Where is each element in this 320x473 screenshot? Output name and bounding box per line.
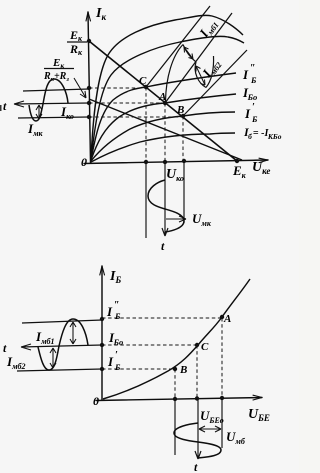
perp line L3 through B: [183, 50, 247, 116]
AC load line: [89, 41, 237, 161]
svg-text:B: B: [179, 364, 187, 376]
left: t axis: [14, 101, 89, 107]
curve c2: [91, 36, 244, 159]
svg-text:″: ″: [250, 63, 256, 74]
Ubeo arrow: [199, 426, 221, 432]
scan edge artifacts: [0, 105, 2, 111]
svg-text:C: C: [139, 75, 147, 87]
t axis of ib waveform (left): [21, 344, 102, 350]
Umk arrow: [166, 216, 186, 222]
curve c5 I'b through B: [91, 112, 235, 161]
input characteristic curve: [103, 279, 250, 399]
arrow Imb2 (between L2 and L3): [196, 66, 205, 85]
sine along load line hump1: [166, 45, 184, 102]
DC load line: [89, 99, 242, 160]
svg-text:″: ″: [114, 300, 120, 311]
dashed projections C A B: [89, 87, 183, 161]
fraction Ek/Rk: [67, 28, 87, 57]
arrow Imb1 (between L1 and L2): [184, 47, 193, 59]
sine umk(t) vertical: [148, 180, 184, 232]
left: line at C level: [23, 89, 89, 91]
Imb1 arrow: [70, 322, 76, 344]
svg-text:I: I: [106, 304, 113, 319]
wire: level line I''b (left): [22, 320, 102, 323]
curve c6 Ikbo: [91, 133, 235, 162]
svg-text:Б: Б: [251, 114, 258, 124]
wire: projection line from B below axis: [183, 161, 185, 223]
axis Ib vertical: [101, 266, 103, 400]
svg-text:Б: Б: [250, 75, 257, 85]
svg-text:′: ′: [115, 350, 118, 361]
svg-text:I: I: [242, 67, 249, 82]
perp line L2 through A: [165, 13, 232, 103]
wire: projection line from C below axis: [145, 162, 147, 238]
wire: projection line from B below axis (bottom): [174, 399, 176, 455]
label curve I'b: [244, 102, 258, 124]
sine umb(t): [174, 423, 221, 458]
svg-text:C: C: [201, 341, 209, 353]
left sine ib(t): [38, 319, 88, 370]
axis Ube horizontal: [96, 398, 262, 401]
left sine ik(t): [29, 79, 68, 121]
label level I'b: [107, 350, 121, 372]
curve c4 Ibo through A: [91, 94, 236, 160]
Imb2 arrow: [50, 348, 56, 368]
t axis of ube waveform (down): [195, 399, 201, 459]
svg-text:Б: Б: [114, 311, 121, 321]
svg-text:B: B: [176, 104, 184, 116]
fraction Ek/(Rk+Rz): [43, 57, 86, 98]
perp line L1 through C: [146, 6, 210, 87]
svg-text:A: A: [223, 313, 231, 325]
svg-text:A: A: [158, 91, 166, 103]
svg-text:Rк+Rз: Rк+Rз: [43, 71, 69, 83]
wire: projection line from A below axis (bottom): [221, 398, 223, 448]
points B C A bottom: [173, 367, 177, 371]
svg-text:I: I: [244, 106, 251, 121]
label Imb1 rotated: [196, 16, 221, 42]
svg-text:I: I: [107, 354, 114, 369]
svg-text:Б: Б: [114, 362, 121, 372]
Imk arrow: [36, 105, 42, 119]
t axis of uke waveform (down): [162, 162, 168, 236]
dashed projections bottom: [102, 318, 222, 398]
curve c3 I''b through C: [91, 73, 236, 160]
curve c1 top unlabeled: [91, 15, 243, 158]
sine along load line hump2: [195, 62, 206, 88]
label Imb2 rotated: [199, 56, 224, 82]
svg-text:0: 0: [81, 155, 87, 169]
axis Uke horizontal: [84, 160, 268, 164]
label level I''b: [106, 300, 121, 321]
axis dots: [87, 39, 91, 43]
wire: level line I'b (left): [17, 369, 102, 371]
label curve I''b: [242, 63, 257, 85]
points C A B: [144, 85, 148, 89]
svg-text:0: 0: [93, 394, 99, 408]
left: line at B level: [18, 117, 89, 118]
axis Ik vertical: [88, 12, 91, 163]
svg-text:′: ′: [252, 102, 255, 113]
